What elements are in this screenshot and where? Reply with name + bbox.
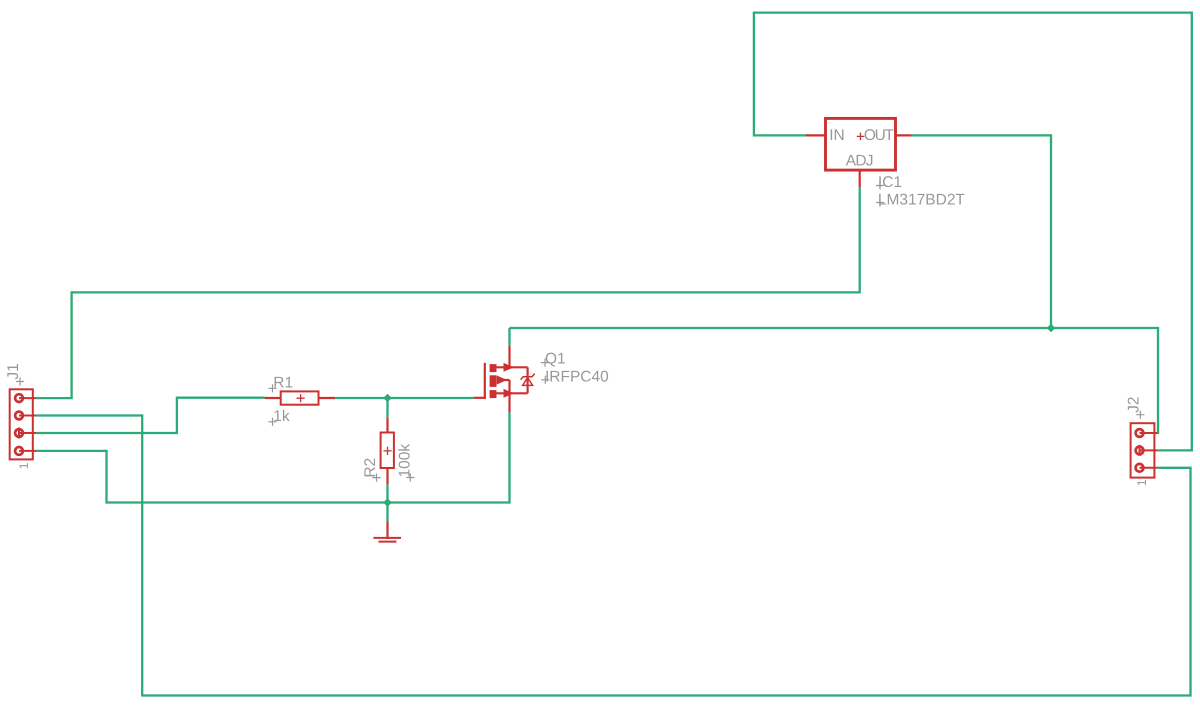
- wire: J1 pin 3 vertical jog up: [176, 398, 178, 434]
- wire: into R1 left lead: [176, 397, 265, 399]
- wire: IN pin to top-left corner: [754, 134, 807, 136]
- svg-text:LM317BD2T: LM317BD2T: [878, 191, 966, 208]
- wire: OUT pin to x=1051: [912, 134, 1051, 136]
- svg-text:R1: R1: [273, 375, 293, 392]
- svg-text:100k: 100k: [396, 444, 413, 478]
- wire: J1 pin 3 out: [36, 432, 177, 434]
- wire: drain rail horizontal y=328: [510, 327, 1159, 329]
- wire: J1 pin 4 out: [36, 450, 106, 452]
- wire: vertical down to J2 pin 1: [1157, 327, 1159, 433]
- wire: R2 bottom to bottom node: [386, 484, 388, 502]
- wire: source rail y=502.5: [105, 501, 509, 503]
- R1 name cross: [268, 384, 276, 392]
- connector J1: [10, 389, 37, 459]
- svg-text:IRFPC40: IRFPC40: [545, 368, 609, 385]
- wire: J1 pin 2 out: [36, 414, 142, 416]
- svg-text:1: 1: [17, 462, 31, 469]
- Q1 name cross: [541, 359, 549, 367]
- svg-text:IN: IN: [829, 127, 845, 144]
- svg-text:J1: J1: [5, 363, 22, 379]
- wire: right vertical of top loop down to J2 pin 2: [1191, 12, 1193, 451]
- svg-text:J2: J2: [1126, 397, 1143, 413]
- transistor Q1: [474, 346, 535, 413]
- wire: J1 pin 1 lead green part: [36, 397, 72, 399]
- wire: left vertical of top loop: [753, 13, 755, 137]
- wire: bottom rail y=695.5: [141, 694, 1190, 696]
- J2 origin cross: [1136, 411, 1144, 419]
- junction: node at R2 bottom / ground: [383, 498, 392, 507]
- R2 name cross: [372, 474, 380, 482]
- wire: J2 pin 1 lead green part: [1157, 432, 1159, 434]
- wire: up to Q1 source: [508, 412, 510, 503]
- wire: ADJ horizontal run y=292: [72, 291, 861, 293]
- svg-text:1k: 1k: [273, 408, 290, 425]
- wire: bottom node to ground stub: [386, 503, 388, 522]
- junction: node at R1/R2/gate: [383, 394, 392, 403]
- wire: vertical from OUT wire down to node: [1050, 134, 1052, 328]
- junction: node at OUT rail: [1047, 324, 1056, 333]
- IRFPC40 cross: [541, 376, 549, 384]
- LM317BD2T cross: [876, 198, 884, 206]
- wire: ADJ pin down: [859, 187, 861, 292]
- 1k cross: [268, 418, 276, 426]
- wire: J1 pin 4 vertical down: [105, 450, 107, 503]
- svg-text:OUT: OUT: [864, 127, 895, 144]
- resistor R2: [381, 418, 394, 485]
- svg-text:1: 1: [1135, 479, 1149, 486]
- wire: Q1 drain up to rail: [508, 328, 510, 346]
- J1 origin cross: [16, 377, 24, 385]
- ground: [373, 521, 401, 541]
- IC1 name cross: [876, 181, 884, 189]
- wire: J1 pin 2 vertical down to bottom rail: [141, 414, 143, 695]
- svg-text:IC1: IC1: [878, 174, 902, 191]
- regulator IC1: [806, 118, 912, 187]
- svg-text:ADJ: ADJ: [846, 152, 873, 169]
- connector J2: [1131, 423, 1158, 477]
- 100k cross: [406, 473, 414, 481]
- wire: right vertical from bottom rail up to J2 pin 3: [1189, 468, 1191, 697]
- wire: vertical down to J1 pin 1: [70, 291, 72, 398]
- svg-text:Q1: Q1: [545, 351, 566, 368]
- wire: J2 pin 3 to bottom-rail vertical: [1157, 467, 1191, 469]
- wire: node to R2 top: [386, 398, 388, 418]
- wire: J2 pin 2 to right vertical: [1157, 449, 1193, 451]
- wire: R1 right to Q1 gate: [335, 397, 473, 399]
- wire: top horizontal of loop: [753, 11, 1192, 13]
- resistor R1: [265, 391, 336, 404]
